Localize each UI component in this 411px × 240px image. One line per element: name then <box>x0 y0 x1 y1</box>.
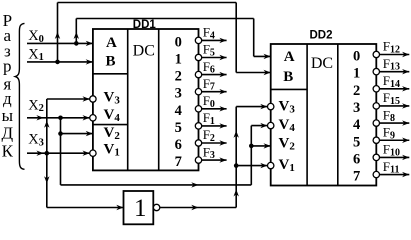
svg-text:B: B <box>283 69 293 85</box>
inversion bubble DD2 output 0 <box>373 51 379 57</box>
wire output F0 <box>202 108 227 110</box>
wire riser to DD2 V4 and V2 <box>250 126 252 185</box>
svg-text:ы: ы <box>2 106 14 125</box>
wire output F3 <box>202 159 227 161</box>
wire riser from X0 to second rail (to DD2 A) <box>75 19 77 44</box>
wire output F8 <box>380 122 410 124</box>
wire X2 to DD1 input V4 <box>27 117 90 119</box>
decoder DD1 box <box>93 29 199 170</box>
svg-text:0: 0 <box>175 34 182 50</box>
DD2 output pin numbers 0-7 <box>353 49 360 185</box>
inversion bubble DD1 output 3 <box>195 89 201 95</box>
inversion bubble DD2 output 3 <box>373 103 379 109</box>
wire inverter output to DD2 V3/V1 riser <box>160 207 236 209</box>
inversion bubble DD1 V4 <box>90 115 96 121</box>
svg-text:DD1: DD1 <box>133 19 157 31</box>
wire X2 drop to DD1 V2 and bottom rail <box>60 118 62 185</box>
svg-text:4: 4 <box>175 103 182 119</box>
svg-text:Д: Д <box>1 124 13 143</box>
svg-text:1: 1 <box>134 195 147 222</box>
DD1 output pin numbers 0-7 <box>175 34 182 170</box>
node: junction X2 / drop wire <box>58 116 63 121</box>
svg-text:К: К <box>2 142 14 161</box>
wire output F10 <box>380 156 410 158</box>
svg-text:5: 5 <box>353 134 360 150</box>
node: junction riser / DD2 V2 <box>249 144 254 149</box>
svg-text:1: 1 <box>353 66 360 82</box>
decoder DD2 box <box>271 44 377 186</box>
inversion bubble DD2 V4 <box>268 122 274 128</box>
inversion bubble DD1 output 6 <box>195 140 201 146</box>
inversion bubble DD2 output 1 <box>373 68 379 74</box>
svg-text:6: 6 <box>353 151 360 167</box>
inversion bubble DD2 output 4 <box>373 120 379 126</box>
wire second rail X0 -> DD2 input A <box>76 18 253 20</box>
inversion bubble DD2 output 2 <box>373 86 379 92</box>
svg-text:1: 1 <box>175 52 182 68</box>
svg-text:2: 2 <box>175 69 182 85</box>
wire output F12 <box>380 54 410 56</box>
inversion bubble DD1 output 5 <box>195 123 201 129</box>
inversion bubble DD1 output 2 <box>195 71 201 77</box>
svg-text:DD2: DD2 <box>309 30 332 42</box>
svg-text:4: 4 <box>353 117 360 133</box>
wire output F9 <box>380 139 410 141</box>
wire output F13 <box>380 71 410 73</box>
svg-text:2: 2 <box>353 83 360 99</box>
wire into DD2 input V4 <box>251 125 267 127</box>
wire output F14 <box>380 88 410 90</box>
svg-text:0: 0 <box>353 49 360 65</box>
caption "Разряды ДК" (bits of DK) <box>1 11 13 161</box>
node: corner-junction at DD1 V2 <box>58 131 63 136</box>
wire into DD1 input V2 <box>61 133 93 135</box>
svg-text:р: р <box>3 56 12 75</box>
wire riser to DD2 V3 and V1 <box>235 107 237 208</box>
inversion bubble DD1 output 4 <box>195 106 201 112</box>
grouping brace for inputs X0..X3 <box>15 23 24 169</box>
svg-text:7: 7 <box>175 154 182 170</box>
wire output F7 <box>202 91 227 93</box>
svg-text:A: A <box>106 35 117 51</box>
inversion bubble DD1 V3 <box>90 96 96 102</box>
inversion bubble DD2 V3 <box>268 103 274 109</box>
svg-text:3: 3 <box>353 100 360 116</box>
wire output F2 <box>202 142 227 144</box>
node: junction X0 / riser to DD2 A <box>74 41 79 46</box>
wire into DD2 input V1 <box>236 165 267 167</box>
wire X3 branch to inverter input <box>47 207 124 209</box>
svg-text:B: B <box>106 54 116 70</box>
wire riser from X1 to top rail (to DD2 B) <box>57 3 59 62</box>
inversion bubble DD1 output 1 <box>195 54 201 60</box>
node: junction X3 / branch wire <box>45 151 50 156</box>
wire top rail X1 -> DD2 input B <box>58 2 237 4</box>
svg-text:DC: DC <box>311 55 333 72</box>
svg-text:A: A <box>284 49 295 65</box>
svg-text:5: 5 <box>175 120 182 136</box>
inversion bubble DD1 output 7 <box>195 157 201 163</box>
wire output F6 <box>202 74 227 76</box>
inversion bubble DD2 output 6 <box>373 154 379 160</box>
inversion bubble DD2 output 5 <box>373 137 379 143</box>
svg-text:7: 7 <box>353 169 360 185</box>
wire into DD2 input V3 <box>236 106 267 108</box>
svg-text:3: 3 <box>175 86 182 102</box>
inverter gate "1" (DD3) <box>124 191 154 224</box>
inversion bubble DD1 V1 <box>90 150 96 156</box>
wire X3 to DD1 input V1 <box>27 152 90 154</box>
wire output F5 <box>202 57 227 59</box>
node: junction X1 / riser to DD2 B <box>55 60 60 65</box>
svg-text:DC: DC <box>133 42 155 59</box>
wire bottom rail from X2 drop to DD2 V4/V2 riser <box>61 184 252 186</box>
wire X0 to DD1 input A <box>27 42 93 44</box>
wire output F4 <box>202 39 227 41</box>
wire output F1 <box>202 125 227 127</box>
wire output F15 <box>380 105 410 107</box>
node: junction riser / DD2 V1 <box>234 163 239 168</box>
inversion bubble DD2 V1 <box>268 162 274 168</box>
svg-text:6: 6 <box>175 137 182 153</box>
wire X1 to DD1 input B <box>27 61 93 63</box>
inversion bubble DD2 output 7 <box>373 171 379 177</box>
wire output F11 <box>380 174 410 176</box>
wire X3 branch vertical (up to V3, down to inverter) <box>46 99 48 208</box>
wire X3 branch to DD1 V3 <box>47 98 90 100</box>
inversion bubble inverter output <box>153 204 159 210</box>
inversion bubble DD1 output 0 <box>195 37 201 43</box>
wire into DD2 input V2 <box>251 145 270 147</box>
